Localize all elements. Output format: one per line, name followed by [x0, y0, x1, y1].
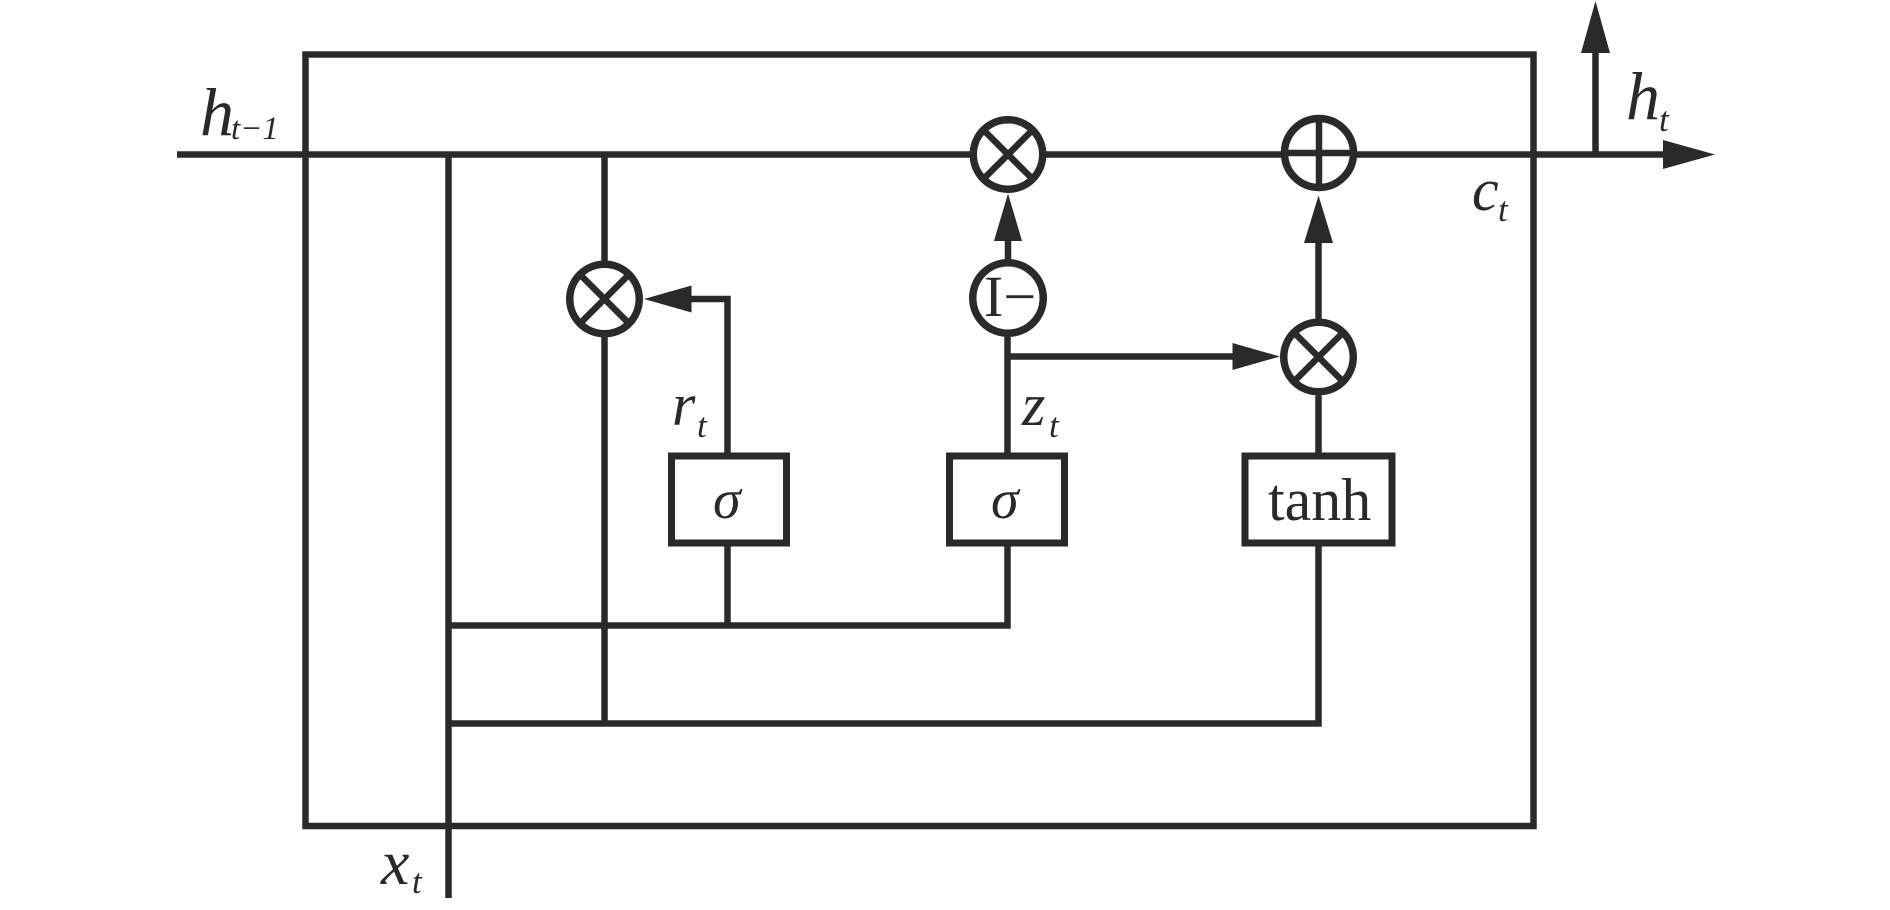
- svg-text:z: z: [1021, 372, 1045, 438]
- svg-text:h: h: [200, 74, 234, 150]
- wire sigma-z top stub to one-minus circle: [1004, 337, 1011, 456]
- wire z(t) branch to candidate multiplier: [1008, 353, 1235, 360]
- svg-text:x: x: [380, 827, 409, 898]
- label r(t): [672, 372, 708, 445]
- svg-text:t: t: [697, 406, 708, 445]
- svg-text:σ: σ: [713, 469, 743, 531]
- arrowhead into upper multiplier: [994, 194, 1022, 242]
- svg-text:t: t: [412, 862, 423, 901]
- wire h(t-1) main horizontal line: [177, 151, 1665, 158]
- wire sigma-r bottom stub: [724, 543, 731, 626]
- svg-text:I−: I−: [984, 264, 1036, 329]
- wire x(t) input vertical: [445, 155, 452, 899]
- arrowhead into adder: [1304, 196, 1333, 244]
- wire line B to tanh: [449, 543, 1319, 724]
- svg-text:σ: σ: [991, 469, 1021, 531]
- svg-text:t−1: t−1: [231, 111, 279, 147]
- arrowhead r(t) into multiplier: [644, 286, 692, 313]
- GRU cell boundary box: [306, 55, 1534, 827]
- multiplier node reset (circle with X): [570, 264, 640, 334]
- multiplier node upper (circle with X) on h line: [973, 120, 1043, 190]
- svg-text:t: t: [1659, 100, 1670, 139]
- arrowhead z(t) into candidate multiplier: [1233, 343, 1281, 370]
- sigma box z gate: [950, 456, 1065, 543]
- one-minus node (circle with 1-): [973, 263, 1044, 334]
- label h(t-1): [200, 74, 279, 150]
- svg-text:h: h: [1626, 58, 1660, 134]
- wire line A to sigma gates: [449, 543, 1008, 626]
- label h(t): [1626, 58, 1670, 139]
- svg-text:c: c: [1472, 157, 1499, 223]
- arrowhead h(t) up output: [1581, 1, 1610, 53]
- arrowhead h(t) right output: [1663, 140, 1715, 169]
- wire reset-gate branch vertical through multiplier: [601, 155, 608, 724]
- sigma box r gate: [672, 456, 787, 543]
- svg-text:t: t: [1498, 190, 1509, 229]
- adder node (circle with plus) on h line: [1285, 119, 1354, 188]
- wire r(t) elbow from sigma box to multiplier: [689, 299, 728, 456]
- wire one-minus to upper multiplier: [1005, 241, 1012, 260]
- svg-text:tanh: tanh: [1268, 467, 1371, 533]
- label z(t): [1021, 372, 1060, 445]
- svg-text:t: t: [1049, 406, 1060, 445]
- multiplier node candidate (circle with X): [1284, 322, 1354, 392]
- label x(t): [380, 827, 423, 901]
- wire tanh top stub: [1315, 396, 1322, 457]
- svg-text:r: r: [672, 372, 696, 438]
- wire candidate multiplier to adder: [1315, 243, 1322, 319]
- label c(t): [1472, 157, 1509, 229]
- tanh box: [1245, 456, 1392, 543]
- wire h(t) vertical output: [1592, 50, 1599, 155]
